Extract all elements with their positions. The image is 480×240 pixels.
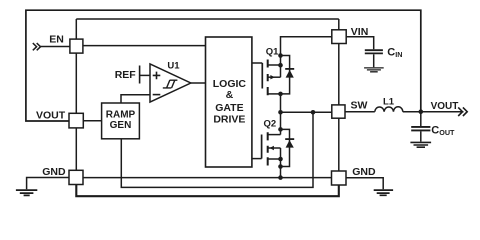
svg-text:Q1: Q1	[266, 47, 279, 58]
svg-text:VOUT: VOUT	[36, 109, 66, 121]
ground symbol (left GND)	[16, 190, 37, 195]
svg-text:GATE: GATE	[215, 102, 243, 114]
wire EN pin to LOGIC block	[83, 45, 205, 47]
wire SW node to SW pin	[281, 111, 332, 113]
svg-text:EN: EN	[49, 33, 64, 45]
wire left GND pin to ground	[27, 178, 69, 190]
pin GND (right)	[332, 171, 347, 185]
ground symbol (right GND)	[374, 190, 393, 195]
capacitor COUT	[411, 127, 430, 130]
wire EN input	[40, 46, 70, 48]
wire LOGIC to Q2 gate	[252, 158, 262, 160]
junction dot D2 cathode tap	[278, 127, 283, 132]
pin VOUT	[69, 113, 83, 128]
wire VOUT pin to RAMP GEN	[83, 120, 102, 122]
transistor Q2 source stub	[268, 158, 281, 160]
pin SW	[332, 105, 345, 118]
wire REF to U1 non-inverting input	[140, 74, 150, 76]
junction dot Q1 source/body	[278, 63, 283, 68]
svg-text:COUT: COUT	[431, 124, 455, 137]
diode D1 (Q1 body diode)	[281, 56, 290, 94]
svg-text:&: &	[226, 89, 234, 101]
junction dot SW node	[278, 110, 283, 115]
svg-text:GND: GND	[42, 166, 66, 178]
svg-text:VOUT: VOUT	[431, 101, 459, 112]
wire COUT to ground	[420, 131, 422, 141]
transistor Q2 gate bar	[261, 135, 263, 159]
ground symbol (COUT)	[410, 142, 431, 147]
svg-text:RAMP: RAMP	[106, 110, 136, 121]
junction dot Q2 source to GND bus	[278, 175, 283, 180]
block RAMP GEN	[102, 103, 140, 139]
pin EN	[70, 39, 83, 53]
junction dot SW sense tap	[311, 110, 316, 115]
inductor L1	[375, 107, 403, 112]
wire IC left edge	[75, 19, 77, 178]
wire IC right edge	[338, 19, 340, 178]
wire VOUT feedback loop (left rail, top rail, right rail down to VOUT node)	[26, 10, 421, 121]
junction dot D2 anode	[278, 164, 283, 169]
svg-text:DRIVE: DRIVE	[213, 113, 245, 125]
wire L1 to VOUT node and output	[403, 111, 464, 113]
transistor Q1 drain stub	[268, 93, 281, 95]
transistor Q2 body stub with arrow	[268, 147, 281, 149]
capacitor CIN	[365, 50, 383, 53]
svg-text:GEN: GEN	[110, 120, 132, 131]
ground symbol (CIN)	[364, 68, 384, 72]
node EN input chevron arrows	[33, 43, 41, 50]
junction dot Q1 drain / D1 anode	[278, 92, 283, 97]
pin VIN	[332, 30, 346, 44]
transistor Q2 drain stub	[268, 134, 281, 136]
svg-text:VIN: VIN	[351, 26, 369, 38]
wire CIN to ground	[373, 54, 375, 67]
diode D2 (Q2 body diode)	[281, 129, 290, 166]
node VOUT output chevron arrows	[458, 107, 467, 116]
svg-text:Q2: Q2	[264, 118, 277, 129]
node REF terminal bar	[139, 66, 141, 84]
svg-text:L1: L1	[383, 97, 395, 108]
wire right GND pin to ground	[346, 178, 383, 190]
svg-text:REF: REF	[115, 69, 137, 81]
op-amp U1 comparator triangle	[150, 64, 191, 102]
wire RAMP GEN output to U1 inverting input	[121, 95, 150, 103]
junction dot Q2 source/body	[278, 157, 283, 162]
transistor Q1 body stub with arrow	[268, 76, 281, 78]
wire IC top edge	[76, 18, 339, 20]
junction dot D1 cathode tap	[278, 53, 283, 58]
svg-text:SW: SW	[351, 100, 368, 112]
wire RAMP GEN bottom to SW sense line	[121, 112, 313, 187]
wire VIN pin to CIN	[346, 37, 374, 50]
transistor Q1 source stub	[268, 64, 281, 66]
svg-text:GND: GND	[352, 166, 376, 178]
op-amp U1 plus symbol	[153, 72, 161, 80]
wire U1 output to LOGIC block	[191, 82, 206, 84]
wire Q2 body/source down to GND bus	[280, 148, 282, 178]
transistor Q2 channel segments	[267, 132, 269, 165]
wire VIN pin to Q1 source rail	[281, 37, 332, 77]
op-amp U1 hysteresis symbol	[163, 80, 178, 88]
wire SW pin to L1	[345, 111, 375, 113]
wire Q1 drain down to SW node and Q2 drain	[280, 94, 282, 135]
op-amp U1 minus symbol	[153, 94, 161, 96]
transistor Q1 gate bar	[261, 63, 263, 89]
wire external bottom GND bus	[76, 185, 339, 197]
wire internal GND bus	[76, 177, 339, 179]
svg-text:LOGIC: LOGIC	[213, 78, 247, 90]
svg-text:CIN: CIN	[387, 47, 402, 60]
wire VOUT node to COUT	[420, 112, 422, 127]
svg-text:U1: U1	[167, 61, 180, 72]
pin GND (left)	[69, 170, 83, 184]
transistor Q1 channel segments	[267, 60, 269, 96]
junction dot VOUT node	[419, 109, 424, 114]
wire LOGIC to Q1 gate	[252, 62, 262, 64]
block LOGIC & GATE DRIVE	[206, 37, 252, 167]
